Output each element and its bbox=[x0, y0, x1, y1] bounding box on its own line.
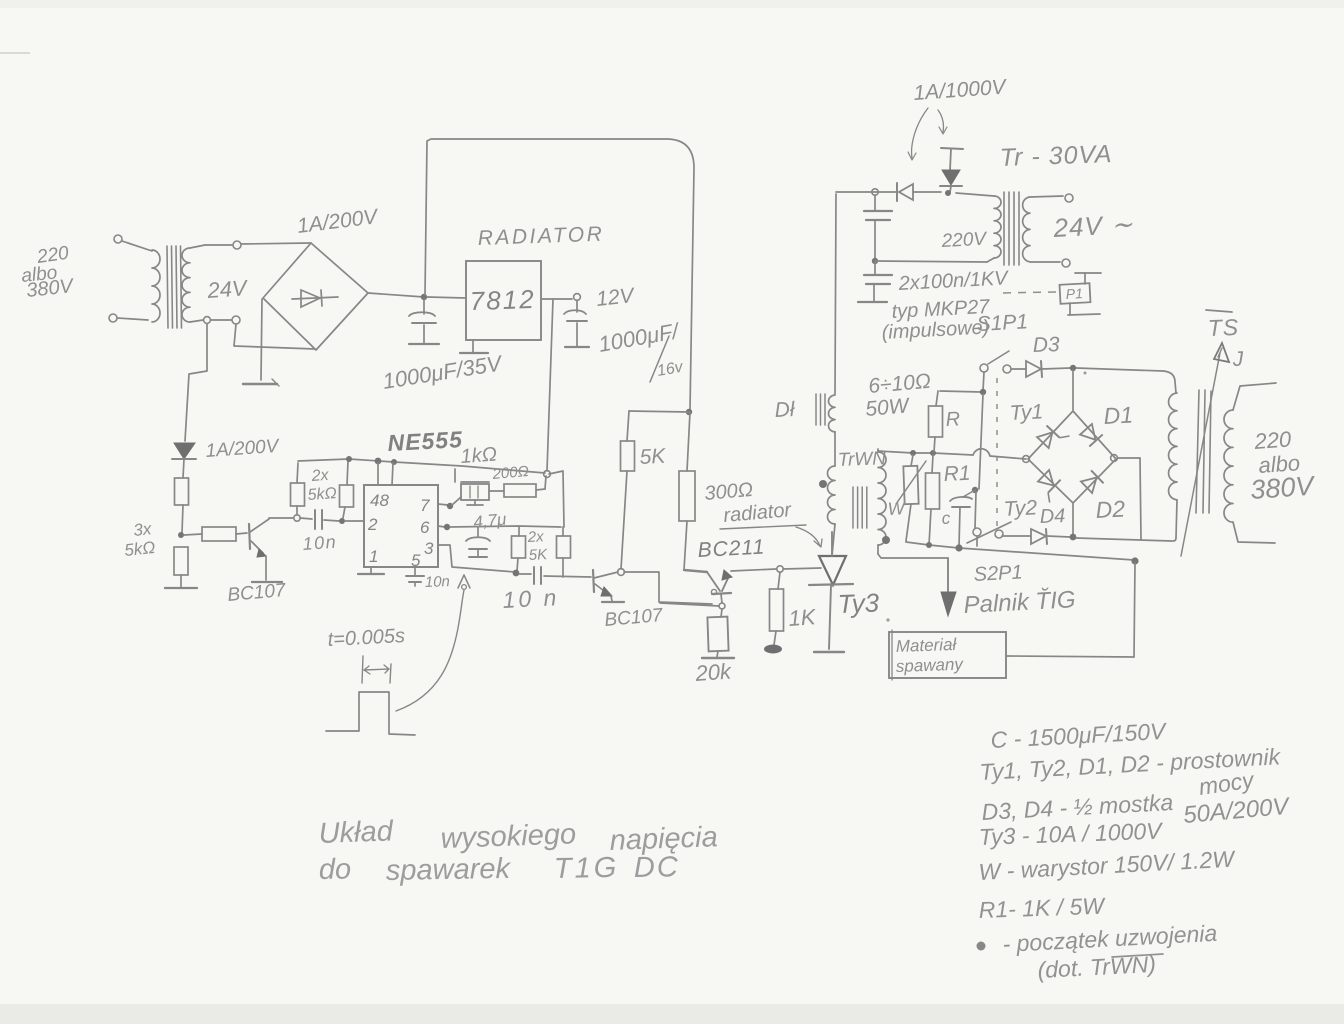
junction dot R top branch bbox=[980, 389, 986, 395]
capacitor 100n lower bbox=[864, 262, 892, 301]
wire pin6 to threshold network bbox=[450, 526, 561, 527]
label Tr - 30VA bbox=[999, 140, 1113, 172]
capacitor 4.7u bbox=[466, 527, 490, 557]
wire to Ty3 gate bbox=[783, 568, 821, 569]
wire S1P1 chain down bbox=[983, 372, 984, 391]
NE555 supply rail bbox=[298, 459, 545, 473]
junction dot rail b bbox=[375, 458, 382, 465]
label 3x 5kOhm bbox=[123, 519, 156, 560]
wire unregulated rail top loop bbox=[425, 139, 694, 410]
diode D2 bbox=[1080, 470, 1103, 493]
svg-text:5kΩ: 5kΩ bbox=[123, 538, 156, 560]
svg-text:D4: D4 bbox=[1039, 505, 1065, 528]
junction dot spark gap bbox=[945, 190, 951, 196]
svg-text:2: 2 bbox=[367, 515, 378, 534]
wire bridge right vertex down bbox=[1118, 458, 1141, 540]
choke Dl winding bbox=[829, 395, 835, 432]
svg-text:Ty3: Ty3 bbox=[837, 588, 880, 619]
label S2P1 bbox=[973, 561, 1023, 586]
label 220 albo 380V (input) bbox=[20, 243, 75, 302]
svg-text:spawarek: spawarek bbox=[386, 853, 512, 887]
label R bbox=[945, 408, 961, 431]
svg-text:24V ∼: 24V ∼ bbox=[1052, 209, 1135, 243]
thyristor Ty2 bbox=[1033, 469, 1066, 502]
wire bridge right vertex to node bbox=[368, 293, 424, 297]
pin label 7 bbox=[420, 496, 430, 515]
wire secondary top to terminal bbox=[190, 245, 232, 248]
svg-text:Ty2: Ty2 bbox=[1003, 496, 1038, 521]
diode D3 bbox=[1011, 361, 1070, 377]
junction dot at 24V branch bbox=[686, 409, 692, 415]
resistor base (horizontal) bbox=[184, 527, 247, 541]
bridge rectifier B1 diamond bbox=[263, 243, 368, 350]
label Ty2 bbox=[1003, 496, 1038, 521]
svg-text:10n: 10n bbox=[425, 573, 451, 591]
label typ MKP27 bbox=[891, 296, 991, 323]
svg-text:D1: D1 bbox=[1103, 401, 1134, 429]
label Palnik TIG bbox=[963, 586, 1076, 619]
transformer Tr secondary winding bbox=[1023, 197, 1030, 262]
junction dot rail c bbox=[391, 459, 397, 465]
junction dot R1 top bbox=[930, 450, 936, 456]
ground below bridge bbox=[243, 379, 279, 386]
svg-text:T1G: T1G bbox=[554, 852, 620, 885]
svg-text:10n: 10n bbox=[302, 532, 338, 554]
pin label 3 bbox=[424, 539, 434, 558]
junction dot pin6 bbox=[444, 524, 450, 530]
wire HV rail down left side bbox=[835, 194, 836, 394]
transformer Ts core bbox=[1196, 390, 1211, 513]
thyristor Ty3 bbox=[809, 532, 853, 649]
svg-text:2x: 2x bbox=[310, 467, 330, 485]
parts list line R1 bbox=[978, 893, 1106, 923]
label 10n (trigger cap) bbox=[302, 532, 338, 554]
ground below Q1 emitter bbox=[252, 581, 282, 583]
switch S2P1 bbox=[967, 522, 1011, 546]
ground below 3x5k bbox=[165, 587, 197, 589]
label P1 bbox=[1065, 285, 1083, 302]
ground blob below 1K bbox=[764, 645, 782, 654]
callout arrow right bbox=[938, 110, 947, 134]
node circle HV rail left bbox=[872, 189, 878, 195]
label 1A/200V (diode) bbox=[205, 436, 282, 462]
svg-text:1K: 1K bbox=[788, 604, 818, 631]
label 1000uF/35V bbox=[381, 350, 505, 394]
label 6-10 Ohm 50W bbox=[864, 370, 931, 421]
parts list line Ty3 bbox=[978, 818, 1164, 850]
label 24V bbox=[206, 275, 250, 303]
node terminal circle top-secondary bbox=[233, 241, 241, 249]
transformer T1 primary terminal (bottom) bbox=[109, 314, 148, 322]
HV output rail bbox=[878, 451, 973, 455]
pulse width arrows bbox=[364, 665, 389, 674]
ground Q2 emitter bbox=[602, 601, 624, 603]
label radiator bbox=[720, 499, 806, 529]
pin label 1 bbox=[369, 547, 378, 566]
ground below 20k bbox=[702, 657, 734, 659]
transistor Q2 BC107 bbox=[593, 570, 618, 601]
label D2 bbox=[1095, 495, 1126, 523]
label BC107 (Q1) bbox=[227, 580, 288, 606]
parts list line Ty1 Ty2 D1 D2 bbox=[979, 743, 1282, 785]
label J bbox=[1231, 348, 1244, 371]
junction dot R1 bottom bbox=[926, 542, 932, 548]
diode spark-gap left bbox=[897, 183, 913, 201]
wire to coupling cap bbox=[519, 573, 531, 575]
transformer Ts HV winding bbox=[1169, 393, 1177, 541]
capacitor C 1500uF bbox=[950, 490, 975, 547]
label 4,7u bbox=[472, 510, 507, 532]
wire bridge bottom vertex bbox=[1072, 503, 1074, 534]
switch S1P1 bbox=[980, 351, 1011, 373]
wire 300 Ohm feed bbox=[687, 412, 690, 471]
wire D3 node to bridge top bbox=[1072, 370, 1074, 410]
transistor Q3 BC211 bbox=[684, 570, 732, 595]
transformer T1 core bbox=[167, 246, 182, 328]
svg-text:10 n: 10 n bbox=[502, 584, 560, 613]
label 12V bbox=[595, 284, 637, 311]
caption line 2 bbox=[319, 851, 680, 887]
svg-text:wysokiego: wysokiego bbox=[440, 818, 576, 855]
resistor 300 Ohm bbox=[679, 471, 695, 570]
pin label 6 bbox=[420, 518, 430, 537]
wire D3 node to Ts top bbox=[1076, 368, 1176, 393]
label BC107 (Q2) bbox=[604, 605, 665, 631]
label 10n (pin5) bbox=[425, 573, 451, 591]
svg-text:50W: 50W bbox=[864, 394, 911, 421]
wire node to 7812 input bbox=[427, 297, 466, 298]
parts list line dot2 bbox=[1037, 951, 1163, 983]
resistor R (G 10 Ohm) bbox=[929, 391, 982, 452]
wire Q3 base down bbox=[721, 594, 722, 603]
label Material spawany bbox=[895, 635, 964, 676]
IC U2 555 box bbox=[364, 485, 438, 567]
bridge rectifier B1 inner diode bbox=[292, 290, 338, 307]
svg-text:Układ: Układ bbox=[318, 815, 394, 850]
label Ty1 bbox=[1009, 400, 1044, 425]
resistor 5k (right of 2x5k) bbox=[340, 461, 354, 518]
svg-text:do: do bbox=[319, 853, 352, 886]
node 12V output terminal bbox=[574, 294, 581, 301]
Ts mains bottom lead bbox=[1233, 522, 1275, 543]
wire base node left bbox=[660, 603, 719, 606]
resistor 5k (lower of 3x5k) bbox=[174, 547, 188, 587]
label 2x 5K (output pair) bbox=[526, 528, 548, 564]
pulse width ticks bbox=[362, 656, 391, 683]
label 1kOhm bbox=[460, 444, 498, 468]
wire HV top rail bbox=[836, 192, 994, 196]
svg-text:5kΩ: 5kΩ bbox=[307, 485, 337, 504]
label 220 albo 380V (Ts) bbox=[1249, 426, 1317, 505]
label TS bbox=[1206, 310, 1240, 341]
7812 ground pin bbox=[460, 340, 488, 353]
node circle bridge left vertex bbox=[1023, 456, 1030, 463]
svg-text:t=0.005s: t=0.005s bbox=[327, 625, 405, 651]
label BC211 bbox=[697, 535, 766, 562]
wire Q3 emitter to Ty3 gate bbox=[731, 569, 776, 571]
label C (cap) bbox=[941, 509, 951, 528]
resistor 200 Ohm bbox=[489, 476, 546, 497]
wire to IC pin2 bbox=[345, 520, 364, 522]
node circle 12V-rail junction bbox=[544, 471, 551, 478]
arrow radiator to Ty3 bbox=[796, 527, 822, 547]
label W bbox=[887, 498, 907, 519]
ground below Ty3 bbox=[814, 651, 844, 653]
label NE555 bbox=[387, 426, 464, 456]
svg-text:5K: 5K bbox=[639, 445, 667, 469]
svg-text:5: 5 bbox=[411, 551, 421, 570]
junction dot rail a bbox=[346, 456, 352, 462]
wire Q2 collector to BC211 base bbox=[624, 572, 712, 604]
svg-text:4,7μ: 4,7μ bbox=[472, 510, 507, 532]
wire bridge left vertex to ground bbox=[261, 299, 262, 380]
junction blob output rail bbox=[513, 570, 520, 577]
svg-text:3: 3 bbox=[424, 539, 434, 558]
label D1 bbox=[1103, 401, 1134, 429]
spark gap stack bbox=[940, 148, 963, 192]
svg-text:Dł: Dł bbox=[774, 398, 796, 422]
label 20k bbox=[694, 659, 733, 687]
junction dot cap chain bbox=[872, 258, 878, 264]
junction dot pin7 bbox=[447, 503, 453, 509]
svg-text:RADIATOR: RADIATOR bbox=[477, 223, 604, 250]
transformer TrWN secondary winding bbox=[878, 449, 886, 554]
transformer TrWN primary winding bbox=[828, 466, 836, 524]
wire bottom terminal down to 1A/200V diode bbox=[185, 324, 207, 441]
pulse waveform diagram bbox=[326, 692, 415, 735]
svg-text:D2: D2 bbox=[1095, 495, 1126, 523]
svg-text:12V: 12V bbox=[595, 284, 637, 311]
wire choke to TrWN bbox=[834, 432, 836, 466]
junction dot unregulated 24V node bbox=[421, 294, 427, 300]
wire bottom terminal to bridge bottom bbox=[234, 324, 315, 349]
svg-text:P1: P1 bbox=[1065, 285, 1083, 302]
svg-text:6: 6 bbox=[420, 518, 430, 537]
winding-start dot TrWN primary bbox=[819, 480, 827, 488]
regulator U1 7812 box bbox=[466, 261, 541, 340]
junction dot D4 node bbox=[1070, 534, 1077, 541]
svg-text:Materiał: Materiał bbox=[895, 635, 957, 656]
junction circle base node bbox=[719, 603, 725, 609]
resistor 5k (upper of 3x5k) bbox=[175, 459, 189, 533]
svg-text:5K: 5K bbox=[528, 546, 548, 564]
label R1 (schematic) bbox=[943, 462, 971, 486]
choke Dl core bbox=[816, 394, 825, 425]
wire TrWN secondary bottom to torch bbox=[878, 554, 947, 558]
Ts mains top lead bbox=[1233, 383, 1276, 410]
diode D1 bbox=[1079, 423, 1102, 446]
label Dl bbox=[774, 398, 796, 422]
capacitor 1000uF/16V bbox=[564, 300, 589, 347]
label 1A/1000V (spark gaps) bbox=[913, 75, 1009, 105]
wire pin7 bbox=[438, 504, 448, 505]
junction dot D3 node bbox=[1070, 365, 1087, 375]
label 5K (collector) bbox=[639, 445, 667, 469]
label S1P1 bbox=[976, 310, 1029, 336]
resistor 20k bbox=[707, 609, 728, 657]
wire Q1 collector to node bbox=[269, 517, 293, 519]
pin label 2 bbox=[367, 515, 378, 534]
wire terminal to bridge top bbox=[241, 243, 311, 244]
wire coupling cap to Q2 base bbox=[544, 576, 591, 577]
svg-text:S2P1: S2P1 bbox=[973, 561, 1023, 586]
bridge diamond Ty1/D1/Ty2/D2 bbox=[1028, 411, 1116, 503]
svg-text:1kΩ: 1kΩ bbox=[460, 444, 498, 468]
transformer TrWN core bbox=[853, 487, 867, 528]
node circle pin2 network left bbox=[294, 515, 300, 521]
label RADIATOR bbox=[477, 223, 604, 250]
node terminal circle at 236,320 bbox=[232, 316, 240, 324]
junction dot W top bbox=[910, 450, 916, 456]
relay P1 coil bbox=[1060, 273, 1101, 315]
svg-text:200Ω: 200Ω bbox=[491, 463, 530, 483]
arrow Palnik TIG electrode bbox=[941, 558, 956, 616]
svg-text:DC: DC bbox=[634, 851, 680, 884]
resistor 1K bbox=[770, 572, 784, 645]
junction dot C bottom bbox=[955, 544, 962, 551]
pin label 5 bbox=[411, 551, 421, 570]
box Materiał spawany bbox=[889, 630, 1006, 680]
svg-text:3x: 3x bbox=[132, 519, 152, 540]
svg-text:Ty1: Ty1 bbox=[1009, 400, 1044, 425]
wire TrWN primary to Ty3 bbox=[832, 524, 835, 556]
capacitor 10n (trigger) bbox=[300, 510, 339, 529]
label 2x 5kOhm bbox=[307, 467, 337, 504]
svg-text:2x: 2x bbox=[526, 528, 544, 546]
diode D 1A/200V (NE555 input) bbox=[172, 443, 196, 459]
label 2x100n/1KV bbox=[897, 267, 1010, 295]
label TrWN bbox=[837, 448, 886, 471]
svg-text:spawany: spawany bbox=[895, 655, 964, 676]
junction dot workpiece node bbox=[1131, 557, 1138, 564]
svg-text:S1P1: S1P1 bbox=[976, 310, 1029, 336]
diode D4 bbox=[1031, 529, 1070, 544]
svg-text:220: 220 bbox=[1253, 426, 1293, 454]
svg-text:D3: D3 bbox=[1032, 333, 1060, 357]
svg-text:NE555: NE555 bbox=[387, 426, 464, 456]
wire between bottom terminals bbox=[211, 319, 231, 321]
svg-text:380V: 380V bbox=[1249, 470, 1317, 505]
terminal bar below caps bbox=[858, 301, 887, 303]
label 200Ohm bbox=[491, 463, 530, 483]
svg-text:R1- 1K / 5W: R1- 1K / 5W bbox=[978, 893, 1106, 923]
label 1000uF/16v bbox=[597, 318, 686, 382]
transformer Ts mains winding bbox=[1224, 410, 1233, 522]
svg-text:TS: TS bbox=[1207, 314, 1239, 341]
Tr secondary top terminal bbox=[1030, 194, 1073, 202]
transformer Tr primary winding bbox=[987, 196, 1001, 262]
transformer Tr core bbox=[1004, 192, 1019, 265]
label 7812 bbox=[469, 284, 536, 316]
parts list line D3 D4 bbox=[981, 789, 1292, 829]
callout arrowhead at 555 output bbox=[458, 575, 470, 589]
capacitor 10n pin5 bbox=[406, 567, 424, 586]
svg-text:20k: 20k bbox=[694, 659, 733, 687]
svg-text:Tr - 30VA: Tr - 30VA bbox=[999, 140, 1113, 172]
wire hop over dashed link bbox=[973, 449, 1026, 459]
svg-text:7812: 7812 bbox=[469, 284, 536, 316]
parts list word mocy bbox=[1197, 766, 1257, 800]
wire pin6 bbox=[438, 526, 445, 527]
transformer T1 primary terminal (top) bbox=[114, 235, 152, 251]
svg-text:300Ω: 300Ω bbox=[704, 479, 754, 505]
wire workpiece to bridge output bbox=[1006, 563, 1135, 657]
svg-text:BC211: BC211 bbox=[697, 535, 766, 562]
svg-text:J: J bbox=[1231, 348, 1244, 371]
bottom return rail bbox=[906, 542, 1134, 560]
caption line 1 bbox=[318, 815, 718, 857]
label D4 bbox=[1039, 505, 1065, 528]
node circle bridge right vertex bbox=[1111, 455, 1118, 462]
ground pin1 bbox=[358, 567, 384, 574]
svg-text:W: W bbox=[887, 498, 907, 519]
Tr secondary bottom terminal bbox=[1030, 259, 1070, 267]
svg-text:7: 7 bbox=[420, 496, 430, 515]
transformer T1 primary winding bbox=[152, 250, 160, 322]
winding-start dot TrWN secondary bbox=[882, 536, 890, 544]
junction dot pin2 node bbox=[339, 518, 345, 524]
wire pin3 output bbox=[438, 545, 515, 572]
wire D4 node to Ts bottom bbox=[1076, 538, 1172, 541]
core adjust arrow J bbox=[1181, 343, 1229, 556]
transistor Q1 BC107 bbox=[249, 519, 269, 580]
wire down to C node bbox=[975, 394, 983, 528]
node circle 1K top bbox=[777, 566, 783, 572]
label D3 bbox=[1032, 333, 1060, 357]
wire pin4 to rail bbox=[392, 463, 393, 485]
trimmer pot 1k bbox=[452, 469, 489, 505]
resistor 5k (left of 2x5k) bbox=[291, 463, 305, 515]
callout curve from pulse diagram bbox=[396, 590, 464, 711]
resistor R1 bbox=[926, 455, 940, 545]
transformer T1 secondary winding 24V bbox=[182, 248, 190, 322]
label 220V bbox=[940, 229, 989, 252]
label 1A/200V (bridge) bbox=[296, 205, 381, 238]
resistor 5K (right of 2x5K out) bbox=[557, 527, 571, 577]
wire 7812 output bbox=[541, 298, 572, 300]
wire 12V rail down to NE555 supply bbox=[547, 299, 553, 471]
svg-text:R1: R1 bbox=[943, 462, 971, 486]
parts list line W bbox=[978, 846, 1237, 885]
thyristor Ty1 bbox=[1036, 420, 1069, 453]
resistor 5K (left of 2x5K out) bbox=[512, 527, 526, 571]
label impulsowe bbox=[881, 316, 990, 344]
wire secondary bottom leads bbox=[190, 320, 203, 322]
junction circle Q2 collector / 5K bbox=[618, 569, 625, 576]
capacitor 100n upper bbox=[864, 195, 892, 259]
wire cap node to Tr primary bottom bbox=[875, 261, 987, 262]
svg-text:48: 48 bbox=[370, 491, 389, 510]
svg-text:1: 1 bbox=[369, 547, 378, 566]
svg-text:24V: 24V bbox=[206, 275, 250, 303]
label 10 n (coupling) bbox=[502, 584, 560, 613]
wire rail junction down to 2x5K right bbox=[549, 471, 564, 527]
label t=0.005s bbox=[327, 625, 405, 651]
dashed link P1 to switches bbox=[997, 292, 1056, 527]
parts list line C bbox=[990, 718, 1169, 753]
wire pin8 to rail bbox=[377, 463, 379, 485]
parts list line dot bbox=[977, 920, 1218, 957]
label 300Ohm bbox=[704, 479, 754, 505]
label 24V~ bbox=[1052, 209, 1135, 243]
svg-text:c: c bbox=[941, 509, 951, 528]
junction dot 3x5k divider bbox=[178, 532, 184, 538]
capacitor 1000uF/35V bbox=[409, 299, 439, 344]
label 1K bbox=[788, 604, 818, 631]
pin label 48 bbox=[370, 491, 389, 510]
svg-text:220V: 220V bbox=[940, 229, 989, 252]
node terminal circle at 207,320 bbox=[204, 317, 211, 324]
